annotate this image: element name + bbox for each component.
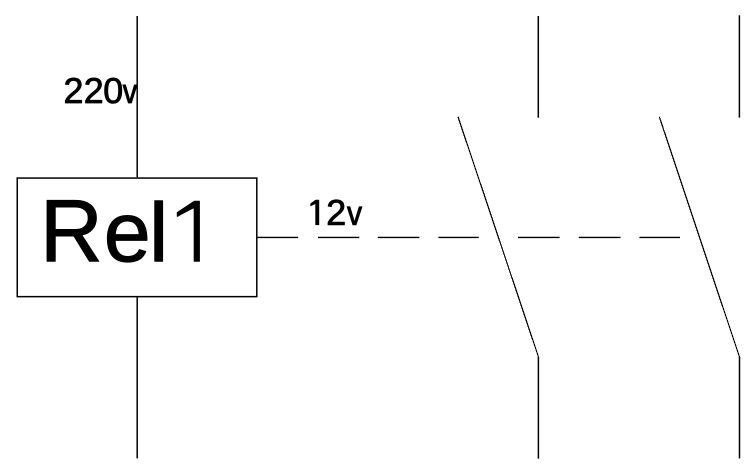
dashed actuation wire between contact 1 and contact 2 bbox=[518, 236, 680, 238]
contact 2 blade (switch diagonal) bbox=[659, 117, 739, 357]
contact 1 bottom terminal wire bbox=[537, 357, 539, 459]
dashed actuation wire 12v from coil to contact 1 bbox=[258, 236, 479, 238]
label Rel1 bbox=[47, 200, 199, 262]
contact 2 bottom terminal wire bbox=[739, 357, 741, 458]
contact 1 top terminal wire bbox=[537, 16, 539, 118]
contact 2 top terminal wire bbox=[738, 15, 740, 117]
label 220v bbox=[65, 78, 137, 103]
label 12v bbox=[311, 200, 362, 225]
wire 220v supply (top vertical into coil) bbox=[136, 16, 138, 177]
contact 1 blade (switch diagonal) bbox=[458, 117, 538, 357]
wire below coil (bottom vertical) bbox=[136, 297, 138, 458]
relay coil Rel1 (box) bbox=[17, 178, 257, 297]
